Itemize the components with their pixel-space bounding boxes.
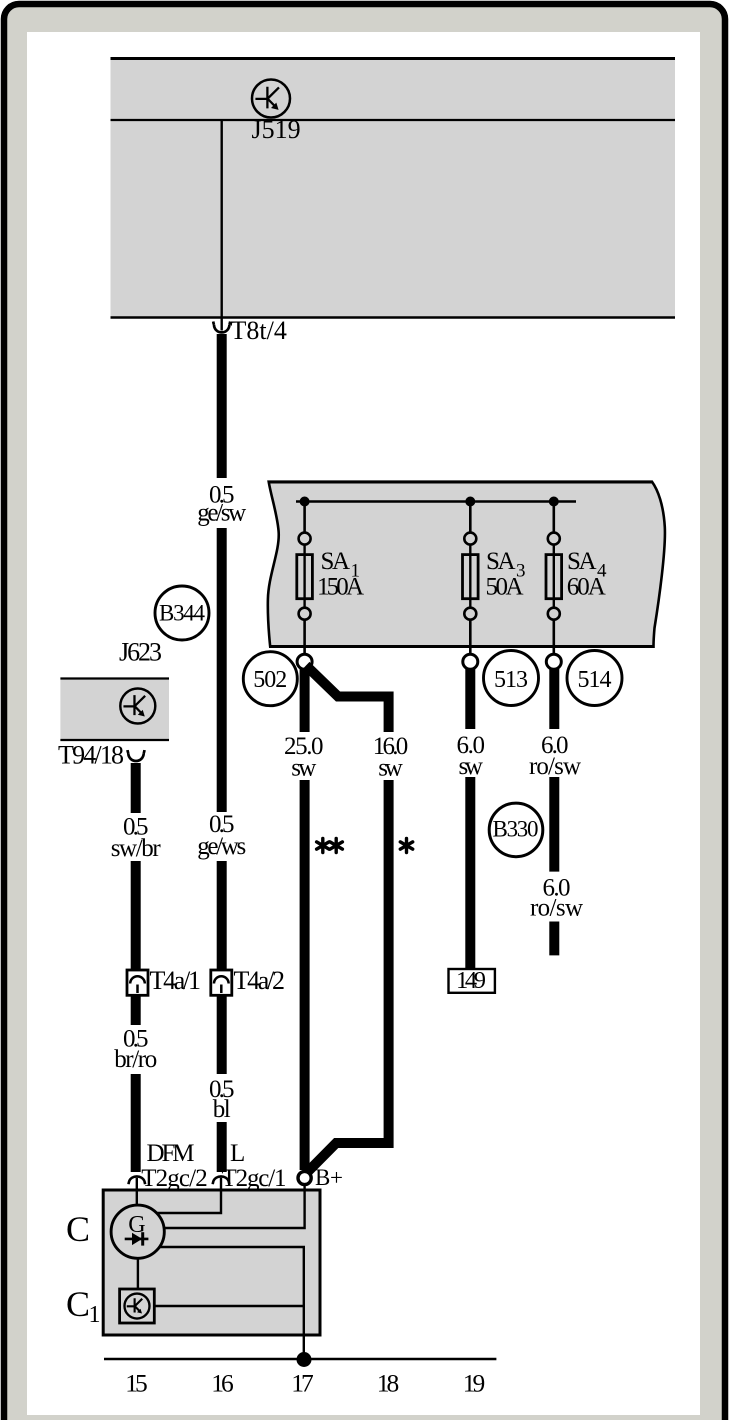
svg-text:18: 18: [377, 1369, 400, 1398]
svg-text:C: C: [66, 1284, 90, 1324]
svg-text:DFM: DFM: [147, 1140, 195, 1167]
svg-text:J519: J519: [252, 115, 301, 144]
svg-text:B+: B+: [315, 1165, 343, 1190]
svg-text:SA: SA: [321, 548, 351, 575]
svg-text:B330: B330: [493, 817, 539, 842]
svg-text:ge/ws: ge/ws: [197, 833, 246, 860]
svg-text:T94/18: T94/18: [58, 741, 124, 770]
svg-text:bl: bl: [213, 1096, 231, 1123]
svg-text:sw: sw: [378, 755, 403, 782]
svg-text:1: 1: [89, 1302, 101, 1328]
svg-text:T4a/1: T4a/1: [150, 966, 202, 995]
svg-text:SA: SA: [567, 548, 597, 575]
svg-text:16: 16: [211, 1369, 234, 1398]
svg-text:T8t/4: T8t/4: [231, 316, 287, 345]
svg-text:C: C: [66, 1209, 90, 1249]
svg-text:B344: B344: [159, 601, 206, 626]
svg-text:150A: 150A: [317, 574, 364, 601]
svg-text:ge/sw: ge/sw: [197, 500, 246, 527]
svg-text:sw/br: sw/br: [111, 835, 162, 862]
svg-text:17: 17: [291, 1369, 314, 1398]
svg-text:J623: J623: [119, 638, 162, 667]
svg-text:L: L: [230, 1140, 245, 1167]
svg-text:sw: sw: [291, 755, 316, 782]
svg-text:60A: 60A: [567, 574, 606, 601]
svg-text:ro/sw: ro/sw: [529, 753, 581, 780]
svg-text:T2gc/1: T2gc/1: [222, 1165, 287, 1192]
svg-text:50A: 50A: [486, 574, 524, 601]
svg-text:ro/sw: ro/sw: [530, 895, 583, 922]
svg-text:br/ro: br/ro: [114, 1046, 157, 1073]
svg-text:15: 15: [125, 1369, 148, 1398]
svg-text:SA: SA: [486, 548, 516, 575]
svg-text:502: 502: [253, 667, 287, 693]
svg-text:T4a/2: T4a/2: [234, 966, 286, 995]
svg-text:513: 513: [494, 667, 528, 693]
svg-text:T2gc/2: T2gc/2: [141, 1165, 208, 1192]
svg-text:sw: sw: [458, 753, 483, 780]
svg-text:149: 149: [456, 967, 486, 994]
svg-text:514: 514: [578, 667, 612, 693]
svg-text:19: 19: [463, 1369, 486, 1398]
